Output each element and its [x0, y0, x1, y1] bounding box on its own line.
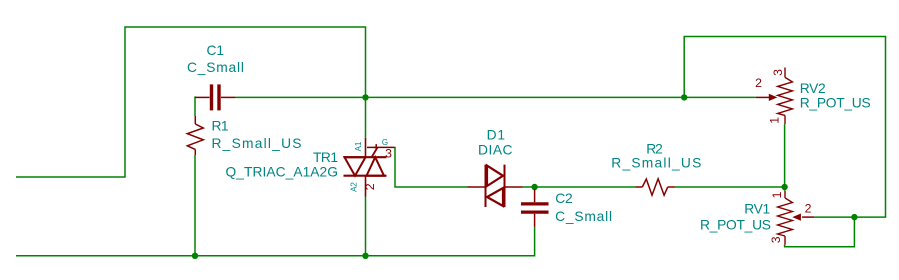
svg-text:R1: R1	[212, 119, 229, 134]
wire RV2 pin1 to RV1 pin1	[784, 124, 786, 190]
svg-text:R_Small_US: R_Small_US	[611, 156, 701, 171]
wire R1 bottom to bottom rail	[194, 155, 196, 256]
svg-text:2: 2	[363, 183, 377, 190]
resistor R1	[187, 116, 203, 155]
svg-text:C_Small: C_Small	[555, 209, 612, 224]
wire DIAC to R2	[523, 186, 636, 188]
svg-text:R_Small_US: R_Small_US	[212, 136, 302, 151]
svg-text:A1: A1	[354, 141, 363, 151]
wire C1 left to R1	[194, 96, 196, 116]
svg-text:R_POT_US: R_POT_US	[800, 96, 871, 111]
svg-text:D1: D1	[487, 128, 506, 143]
svg-text:RV2: RV2	[800, 81, 826, 96]
svg-text:DIAC: DIAC	[478, 143, 513, 158]
node C2 top	[531, 184, 537, 190]
node R1 bottom	[192, 253, 198, 259]
wire RV1 pin3 loop	[785, 217, 855, 247]
svg-text:3: 3	[771, 69, 785, 76]
node top loop branch	[681, 94, 687, 100]
RV1 wiper arrow	[792, 214, 801, 221]
potentiometer RV2	[756, 68, 793, 125]
triac TR1	[344, 138, 395, 197]
node pots junction	[781, 184, 787, 190]
RV2 wiper arrow	[769, 94, 778, 101]
node C1 out / triac A1	[362, 94, 368, 100]
svg-text:A2: A2	[350, 182, 359, 192]
capacitor C2	[521, 189, 549, 227]
svg-text:C2: C2	[555, 191, 573, 206]
node RV1 wiper loop	[851, 214, 857, 220]
svg-text:2: 2	[805, 202, 812, 216]
svg-text:Q_TRIAC_A1A2G: Q_TRIAC_A1A2G	[226, 164, 339, 179]
svg-text:2: 2	[755, 76, 762, 90]
svg-text:C1: C1	[207, 43, 225, 58]
diac D1	[468, 165, 523, 207]
svg-text:RV1: RV1	[744, 202, 770, 217]
node A2 bottom	[362, 253, 368, 259]
capacitor C1	[195, 84, 235, 110]
pin number 1 (A1)	[367, 144, 376, 149]
svg-text:TR1: TR1	[313, 150, 338, 165]
svg-text:3: 3	[769, 236, 783, 243]
potentiometer RV1	[778, 191, 815, 245]
resistor R2	[635, 179, 674, 195]
svg-text:R2: R2	[646, 142, 663, 157]
svg-text:R_POT_US: R_POT_US	[700, 218, 771, 233]
wire gate to DIAC	[395, 147, 468, 187]
svg-text:C_Small: C_Small	[187, 60, 244, 75]
wire R2 to pots junction	[675, 186, 785, 188]
svg-text:1: 1	[768, 117, 782, 124]
svg-text:1: 1	[770, 191, 784, 198]
wire left AC input mid	[16, 27, 366, 177]
wire C1 output to RV2 wiper	[235, 96, 756, 98]
svg-text:3: 3	[385, 147, 392, 161]
wire bottom rail	[16, 227, 535, 256]
wire triac A2 to bottom rail	[365, 197, 367, 256]
wire top-right loop	[684, 37, 885, 218]
